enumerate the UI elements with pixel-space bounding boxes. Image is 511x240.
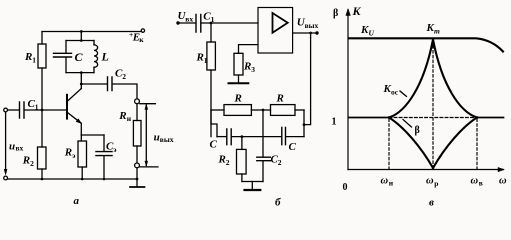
svg-text:β: β	[333, 8, 338, 19]
svg-text:ω: ω	[381, 176, 389, 187]
svg-text:2: 2	[226, 158, 230, 167]
svg-text:β: β	[415, 125, 420, 136]
svg-text:0: 0	[343, 182, 348, 193]
svg-text:1: 1	[332, 117, 337, 128]
svg-text:C: C	[210, 139, 218, 151]
svg-text:K: K	[352, 4, 362, 18]
svg-text:вых: вых	[160, 135, 174, 144]
svg-text:1: 1	[35, 103, 39, 112]
svg-text:ω: ω	[426, 176, 434, 187]
svg-text:1: 1	[211, 15, 215, 24]
svg-text:н: н	[127, 114, 132, 123]
svg-text:ос: ос	[391, 88, 399, 97]
svg-text:C: C	[75, 50, 84, 64]
svg-text:u: u	[154, 131, 160, 143]
svg-text:вых: вых	[305, 21, 319, 30]
svg-text:н: н	[389, 179, 394, 188]
svg-text:R: R	[118, 110, 126, 122]
svg-text:к: к	[139, 35, 144, 44]
svg-text:ω: ω	[471, 176, 479, 187]
svg-text:1: 1	[204, 56, 208, 65]
svg-text:ω: ω	[499, 176, 507, 187]
svg-text:в: в	[429, 197, 434, 209]
svg-text:б: б	[275, 197, 281, 209]
svg-text:R: R	[22, 155, 30, 167]
svg-text:2: 2	[122, 72, 126, 81]
svg-text:р: р	[434, 179, 438, 188]
svg-text:R: R	[243, 61, 251, 73]
svg-text:R: R	[64, 147, 72, 159]
svg-text:U: U	[369, 29, 375, 38]
svg-text:э: э	[72, 151, 75, 160]
svg-text:C: C	[289, 141, 297, 153]
svg-text:3: 3	[251, 65, 255, 74]
svg-text:1: 1	[32, 56, 36, 65]
svg-text:R: R	[276, 93, 284, 105]
svg-text:u: u	[9, 141, 15, 153]
svg-text:L: L	[101, 50, 109, 64]
svg-text:m: m	[434, 27, 440, 36]
svg-text:R: R	[24, 51, 32, 63]
svg-text:в: в	[479, 179, 483, 188]
svg-text:2: 2	[278, 158, 282, 167]
svg-text:вх: вх	[185, 15, 193, 24]
svg-text:R: R	[234, 93, 242, 105]
svg-text:R: R	[196, 52, 204, 64]
svg-text:2: 2	[30, 159, 34, 168]
svg-text:э: э	[113, 145, 116, 154]
svg-text:а: а	[74, 195, 80, 207]
svg-text:R: R	[218, 154, 226, 166]
svg-text:вх: вх	[16, 144, 24, 153]
